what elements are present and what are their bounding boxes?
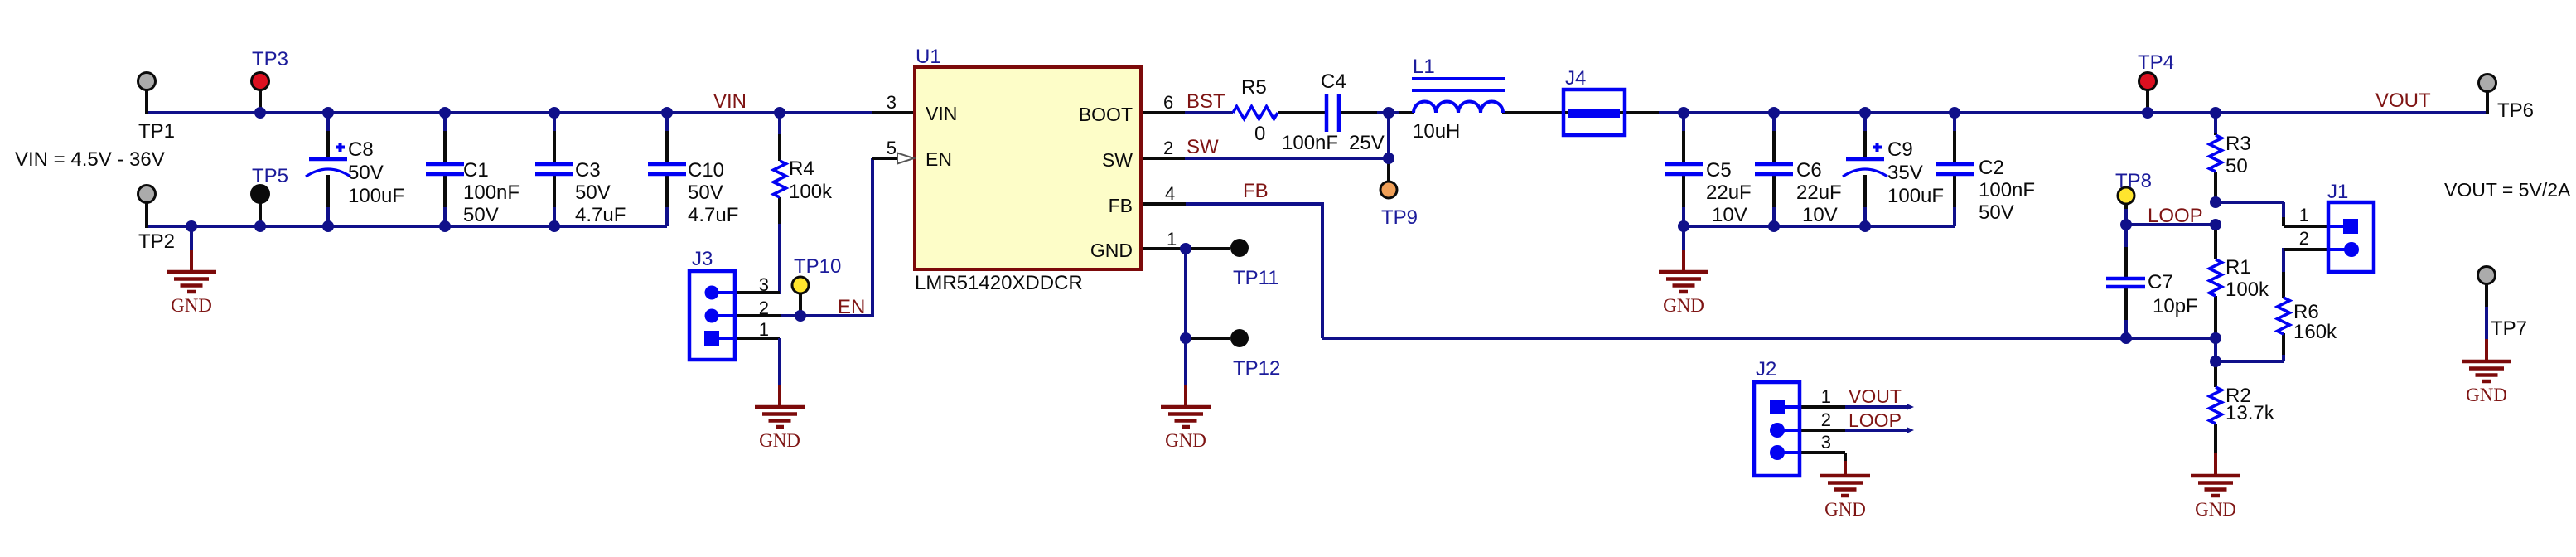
node junction (1431,408)	[1180, 332, 1191, 344]
capacitor C7	[2106, 278, 2145, 287]
R3 labels	[2226, 133, 2251, 177]
net label VIN	[713, 90, 747, 113]
svg-text:R5: R5	[1241, 76, 1267, 99]
svg-text:L1: L1	[1413, 56, 1435, 78]
svg-text:VIN: VIN	[926, 103, 957, 124]
svg-text:EN: EN	[926, 148, 952, 170]
node junction (2251,273)	[1859, 220, 1871, 232]
svg-text:GND: GND	[1165, 430, 1206, 451]
U1 EN input triangle	[897, 153, 914, 164]
R4 labels	[789, 157, 833, 203]
wire bottom pin of C1	[443, 174, 447, 226]
svg-text:2: 2	[1163, 138, 1173, 158]
wire bottom pin of C2	[1953, 174, 1956, 226]
TP1 label	[138, 120, 175, 143]
ground below J3	[755, 407, 805, 451]
J3 pin 3 number	[759, 274, 769, 295]
wire R2 top pin	[2214, 361, 2217, 387]
TP7 label	[2491, 317, 2527, 340]
svg-text:EN: EN	[838, 296, 865, 318]
wire VIN top rail	[147, 111, 872, 114]
ground below TP7	[2462, 361, 2511, 405]
svg-text:LOOP: LOOP	[2148, 205, 2203, 227]
U1 value label	[915, 272, 1083, 294]
svg-text:J2: J2	[1756, 358, 1776, 380]
wire C4 right pin	[1341, 111, 1389, 114]
net label EN	[838, 296, 865, 318]
resistor R1	[2210, 259, 2222, 296]
svg-text:0: 0	[1254, 123, 1265, 145]
annotation VOUT rating	[2444, 179, 2571, 201]
svg-text:10V: 10V	[1802, 204, 1838, 226]
J1 pin 2 number	[2299, 228, 2309, 249]
wire J3 pin 2 to EN net	[735, 158, 877, 317]
test point TP6	[2479, 75, 2496, 92]
node junction (231,273)	[186, 220, 197, 232]
U1 pin 4 number	[1165, 183, 1175, 204]
J2 pin 1 number	[1821, 386, 1831, 407]
TP12 label	[1233, 357, 1280, 380]
wire L1 left pin	[1389, 111, 1414, 114]
wire TP8 stem	[2124, 204, 2128, 225]
wire top pin of C5	[1682, 113, 1685, 164]
wire bottom pin of C10	[665, 174, 669, 226]
node junction (2566,271)	[2120, 219, 2132, 230]
wire R2 node to R6	[2216, 333, 2284, 361]
test point TP5	[252, 186, 269, 203]
wire LOOP net	[2126, 223, 2216, 226]
svg-text:TP9: TP9	[1381, 206, 1418, 229]
node VOUT off-page arrow	[1907, 404, 1914, 410]
svg-text:50V: 50V	[348, 162, 384, 184]
svg-text:TP11: TP11	[1233, 267, 1279, 289]
capacitor C2	[1936, 164, 1974, 174]
L1 value label	[1413, 120, 1460, 143]
wire VOUT rail	[1659, 111, 2487, 114]
C1 labels	[463, 159, 520, 226]
node junction (2674,244)	[2210, 196, 2221, 208]
svg-text:1: 1	[2299, 205, 2309, 225]
wire R3 bottom pin	[2214, 172, 2217, 202]
C2 labels	[1979, 157, 2035, 224]
svg-text:160k: 160k	[2293, 321, 2337, 343]
wire SW pin stub	[1141, 157, 1185, 160]
svg-text:50V: 50V	[463, 204, 499, 226]
R6 labels	[2293, 301, 2337, 343]
R2 labels	[2226, 385, 2275, 424]
wire VIN pin stub to U1	[872, 111, 915, 114]
TP4 label	[2138, 51, 2174, 74]
svg-text:TP8: TP8	[2115, 170, 2152, 192]
svg-text:100k: 100k	[789, 181, 833, 203]
svg-text:TP10: TP10	[794, 255, 841, 278]
svg-text:VOUT: VOUT	[1849, 385, 1902, 407]
wire J4 through and right pin	[1563, 111, 1659, 114]
svg-text:C2: C2	[1979, 157, 2004, 179]
net label SW	[1187, 136, 1219, 158]
node junction (805,136)	[661, 107, 673, 119]
resistor R3	[2210, 135, 2222, 172]
wire TP5 stem	[259, 202, 262, 226]
test point TP12	[1230, 329, 1249, 347]
svg-text:100nF: 100nF	[1282, 132, 1338, 154]
wire FB node to R2 node	[2214, 338, 2217, 361]
node junction (941,136)	[774, 107, 785, 119]
svg-text:C9: C9	[1887, 138, 1913, 161]
node junction (2032,273)	[1678, 220, 1689, 232]
J3 pin 1 number	[759, 319, 769, 340]
svg-text:50V: 50V	[688, 182, 723, 204]
svg-text:5: 5	[887, 138, 897, 158]
TP3 label	[252, 48, 288, 70]
svg-text:35V: 35V	[1887, 162, 1923, 184]
wire bottom pin of C9	[1863, 175, 1867, 226]
resistor R5	[1233, 107, 1278, 119]
svg-text:VOUT: VOUT	[2375, 90, 2431, 112]
svg-text:C10: C10	[688, 159, 724, 182]
svg-text:TP7: TP7	[2491, 317, 2527, 340]
node junction (2674,136)	[2210, 107, 2221, 119]
capacitor C5	[1665, 164, 1703, 174]
op-amp U1 LMR51420XDDCR regulator	[915, 67, 1141, 269]
svg-text:SW: SW	[1102, 149, 1133, 171]
wire R6 top pin to J1 pin 2	[2284, 248, 2330, 298]
svg-text:LMR51420XDDCR: LMR51420XDDCR	[915, 272, 1083, 294]
wire top pin of C3	[553, 113, 556, 164]
svg-text:VIN: VIN	[713, 90, 747, 113]
node junction (396,273)	[322, 220, 334, 232]
svg-text:2: 2	[759, 298, 769, 318]
node junction (537,273)	[439, 220, 451, 232]
resistor R2	[2210, 387, 2222, 424]
C8 labels	[348, 138, 404, 207]
resistor R6	[2278, 298, 2290, 334]
ground at output bus	[1659, 272, 1708, 316]
wire TP3 stem	[259, 90, 262, 113]
wire bottom pin of C3	[553, 174, 556, 226]
wire BOOT pin stub	[1141, 111, 1185, 114]
svg-text:FB: FB	[1109, 195, 1133, 216]
node junction (2359,136)	[1949, 107, 1960, 119]
wire FB net	[1186, 202, 2216, 338]
J3 pin 2 number	[759, 298, 769, 318]
TP11 label	[1233, 267, 1279, 289]
test point TP11	[1230, 239, 1249, 257]
U1 pin 2 number	[1163, 138, 1173, 158]
svg-text:TP4: TP4	[2138, 51, 2174, 74]
svg-text:50V: 50V	[1979, 201, 2014, 224]
connector J3	[689, 271, 735, 360]
J1 refdes label	[2327, 181, 2348, 203]
wire J2 pin 1 VOUT stub	[1800, 405, 1907, 409]
wire output GND stub	[1682, 226, 1685, 272]
TP10 label	[794, 255, 841, 278]
svg-text:6: 6	[1163, 92, 1173, 113]
wire R4 top pin	[778, 113, 781, 161]
svg-text:100k: 100k	[2226, 278, 2269, 301]
svg-text:100uF: 100uF	[348, 185, 404, 207]
C4 labels	[1282, 70, 1385, 154]
J2 pin 2 number	[1821, 409, 1831, 430]
wire FB pin stub	[1141, 202, 1186, 206]
svg-text:U1: U1	[916, 46, 941, 68]
TP2 label	[138, 230, 175, 253]
J1 pin 1 number	[2299, 205, 2309, 225]
C6 labels	[1796, 159, 1842, 226]
wire top pin of C10	[665, 113, 669, 164]
wire bottom pin of C8	[326, 175, 330, 226]
node junction (2674,436)	[2210, 356, 2221, 367]
svg-text:TP6: TP6	[2497, 99, 2534, 122]
ground below TP12	[1161, 407, 1211, 451]
C5 labels	[1706, 159, 1752, 226]
svg-text:3: 3	[887, 92, 897, 113]
wire TP9 stem	[1387, 158, 1390, 182]
svg-text:FB: FB	[1243, 180, 1269, 202]
svg-text:GND: GND	[759, 430, 800, 451]
svg-text:GND: GND	[1090, 240, 1133, 261]
svg-text:1: 1	[1821, 386, 1831, 407]
node junction (2141,136)	[1768, 107, 1780, 119]
wire R4 bottom pin to J3 pin 3	[737, 197, 780, 294]
C9 labels	[1887, 138, 1944, 207]
connector J2	[1754, 382, 1800, 476]
wire bottom pin of C6	[1772, 174, 1776, 226]
node LOOP off-page arrow	[1907, 428, 1914, 433]
svg-text:10pF: 10pF	[2153, 295, 2198, 317]
svg-text:2: 2	[2299, 228, 2309, 249]
test point TP1	[138, 73, 156, 90]
wire BST net	[1185, 111, 1233, 114]
wire LOOP node to J1 pin 1	[2216, 202, 2330, 226]
wire top pin of C8	[326, 113, 330, 159]
U1 pin 1 number	[1167, 229, 1177, 249]
wire TP1 stem	[145, 90, 148, 114]
svg-text:4.7uF: 4.7uF	[575, 204, 626, 226]
node junction (669,136)	[549, 107, 560, 119]
J3 refdes label	[692, 248, 713, 270]
U1 refdes label	[916, 46, 941, 68]
net label VOUT at rail	[2375, 90, 2431, 112]
wire TP7 stem	[2485, 283, 2488, 361]
wire L1 right pin to J4	[1502, 111, 1563, 114]
annotation VIN range	[15, 148, 165, 171]
svg-text:GND: GND	[2195, 499, 2236, 520]
wire TP4 stem	[2146, 90, 2149, 113]
inductor L1	[1412, 79, 1505, 113]
svg-text:R1: R1	[2226, 256, 2251, 278]
svg-text:3: 3	[1821, 432, 1831, 453]
svg-text:GND: GND	[1663, 295, 1704, 316]
capacitor C8	[306, 143, 350, 177]
net label BST	[1187, 90, 1225, 113]
wire to GND symbol below TP12	[1184, 338, 1187, 407]
node junction (1431,300)	[1180, 243, 1191, 254]
svg-text:BOOT: BOOT	[1079, 104, 1133, 125]
svg-text:GND: GND	[1824, 499, 1866, 520]
node junction (2032,136)	[1678, 107, 1689, 119]
svg-text:3: 3	[759, 274, 769, 295]
svg-text:J4: J4	[1565, 67, 1586, 90]
svg-text:22uF: 22uF	[1796, 182, 1842, 204]
J4 refdes label	[1565, 67, 1586, 90]
node junction (2566,408)	[2120, 332, 2132, 344]
net label VOUT at J2	[1849, 385, 1902, 407]
svg-text:100nF: 100nF	[1979, 179, 2035, 201]
test point TP4	[2139, 73, 2157, 90]
net label LOOP at J2	[1849, 409, 1902, 431]
net label LOOP	[2148, 205, 2203, 227]
wire C7 bottom pin	[2124, 287, 2128, 338]
svg-text:BST: BST	[1187, 90, 1225, 113]
node junction (396,136)	[322, 107, 334, 119]
J2 refdes label	[1756, 358, 1776, 380]
svg-text:C6: C6	[1796, 159, 1822, 182]
U1 pin 5 number	[887, 138, 897, 158]
capacitor C9	[1843, 143, 1887, 177]
wire J3 pin 1 to GND	[735, 338, 780, 407]
wire SW vertical to C4/L1 node	[1387, 111, 1390, 158]
svg-text:C5: C5	[1706, 159, 1732, 182]
node junction (1676,136)	[1383, 107, 1394, 119]
node junction (966,381)	[795, 310, 806, 322]
wire R3 top pin	[2214, 113, 2217, 135]
wire J2 pin 2 LOOP stub	[1800, 429, 1907, 432]
test point TP3	[252, 73, 269, 90]
test point TP8	[2118, 187, 2134, 204]
svg-text:GND: GND	[171, 295, 212, 316]
svg-text:VIN = 4.5V - 36V: VIN = 4.5V - 36V	[15, 148, 165, 171]
svg-text:1: 1	[759, 319, 769, 340]
node junction (2674,271)	[2210, 219, 2221, 230]
svg-text:C7: C7	[2148, 271, 2173, 293]
wire top pin of C2	[1953, 113, 1956, 164]
svg-text:C1: C1	[463, 159, 489, 182]
wire TP11 stub	[1186, 247, 1230, 250]
svg-text:R3: R3	[2226, 133, 2251, 155]
wire GND output bus	[1684, 225, 1955, 228]
capacitor C10	[648, 164, 686, 174]
wire top pin of C1	[443, 113, 447, 164]
svg-text:J3: J3	[692, 248, 713, 270]
wire TP2 stem	[145, 202, 148, 228]
svg-text:22uF: 22uF	[1706, 182, 1752, 204]
svg-text:13.7k: 13.7k	[2226, 402, 2275, 424]
node junction (669,273)	[549, 220, 560, 232]
svg-text:25V: 25V	[1349, 132, 1385, 154]
svg-text:100uF: 100uF	[1887, 185, 1944, 207]
wire top pin of C9	[1863, 113, 1867, 159]
U1 pin 6 number	[1163, 92, 1173, 113]
wire SW net	[1185, 157, 1389, 160]
net label FB	[1243, 180, 1269, 202]
wire GND bottom input rail	[147, 225, 667, 228]
wire EN pin stub	[872, 157, 898, 160]
test point TP10	[792, 277, 809, 293]
capacitor C3	[535, 164, 573, 174]
svg-text:4: 4	[1165, 183, 1175, 204]
C7 labels	[2148, 271, 2198, 317]
connector J1	[2328, 202, 2374, 272]
ground at J2 pin 3	[1820, 476, 1870, 520]
node junction (1676,191)	[1383, 153, 1394, 164]
TP5 label	[252, 165, 288, 187]
wire J2 pin 3 to GND	[1800, 453, 1845, 476]
svg-text:TP12: TP12	[1233, 357, 1280, 380]
node junction (2141,273)	[1768, 220, 1780, 232]
capacitor C6	[1755, 164, 1793, 174]
test point TP7	[2478, 267, 2496, 284]
wire TP12 stub	[1186, 337, 1230, 340]
wire R2 bottom pin to GND	[2214, 424, 2217, 476]
R1 labels	[2226, 256, 2269, 301]
TP6 label	[2497, 99, 2534, 122]
svg-text:C8: C8	[348, 138, 374, 161]
svg-text:2: 2	[1821, 409, 1831, 430]
svg-text:TP3: TP3	[252, 48, 288, 70]
svg-text:R6: R6	[2293, 301, 2319, 323]
svg-text:TP1: TP1	[138, 120, 175, 143]
wire top pin of C6	[1772, 113, 1776, 164]
svg-text:50V: 50V	[575, 182, 611, 204]
wire U1 GND pin stub	[1141, 247, 1186, 250]
svg-text:SW: SW	[1187, 136, 1219, 158]
svg-text:1: 1	[1167, 229, 1177, 249]
node junction (2674,408)	[2210, 332, 2221, 344]
capacitor C1	[426, 164, 464, 174]
svg-text:10uH: 10uH	[1413, 120, 1460, 143]
wire C7 top pin	[2124, 225, 2128, 278]
svg-text:VOUT = 5V/2A: VOUT = 5V/2A	[2444, 179, 2571, 201]
node junction (2592,136)	[2142, 107, 2153, 119]
test point TP9	[1380, 182, 1397, 198]
wire TP10 stem	[799, 293, 802, 316]
svg-text:100nF: 100nF	[463, 182, 520, 204]
wire R1 bottom pin	[2214, 296, 2217, 338]
svg-text:GND: GND	[2466, 385, 2507, 405]
TP9 label	[1381, 206, 1418, 229]
wire TP6 stem	[2486, 91, 2489, 114]
capacitor C4	[1327, 94, 1339, 132]
node junction (314,136)	[254, 107, 266, 119]
L1 refdes label	[1413, 56, 1435, 78]
C3 labels	[575, 159, 626, 226]
ground below R2	[2191, 476, 2240, 520]
svg-text:C4: C4	[1321, 70, 1346, 93]
wire bottom pin of C5	[1682, 174, 1685, 226]
U1 pin 3 number	[887, 92, 897, 113]
J2 pin 3 number	[1821, 432, 1831, 453]
svg-text:TP2: TP2	[138, 230, 175, 253]
svg-text:J1: J1	[2327, 181, 2348, 203]
ground at input rail	[167, 226, 216, 316]
svg-text:50: 50	[2226, 155, 2248, 177]
resistor R4	[774, 161, 786, 197]
test point TP2	[138, 186, 156, 203]
svg-text:4.7uF: 4.7uF	[688, 204, 738, 226]
jumper J4	[1563, 90, 1625, 135]
svg-text:10V: 10V	[1712, 204, 1747, 226]
wire R1 top pin	[2214, 225, 2217, 259]
wire GND column below U1	[1184, 249, 1187, 338]
C10 labels	[688, 159, 738, 226]
svg-text:C3: C3	[575, 159, 601, 182]
svg-text:LOOP: LOOP	[1849, 409, 1902, 431]
wire R5 right pin to C4	[1278, 111, 1325, 114]
svg-text:R4: R4	[789, 157, 814, 180]
TP8 label	[2115, 170, 2152, 192]
svg-text:TP5: TP5	[252, 165, 288, 187]
